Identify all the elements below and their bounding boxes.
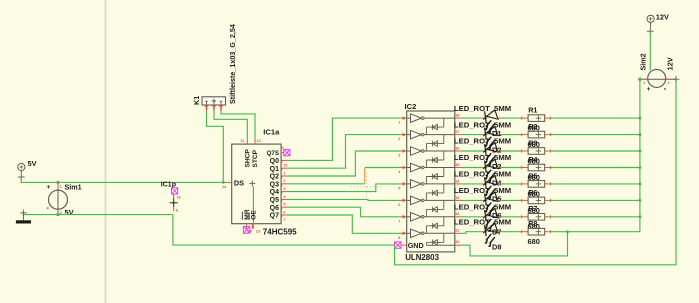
ULN output 3 stub (red) bbox=[455, 150, 461, 152]
junction node rail row 3 bbox=[638, 150, 641, 153]
wire Q2 to ULN input 3 bbox=[287, 151, 401, 176]
svg-text:R5: R5 bbox=[528, 171, 537, 180]
wire ULN output 5 to LED D5 bbox=[461, 183, 484, 185]
wire Q4 to ULN input 5 bbox=[287, 184, 401, 192]
wire Q6 to ULN input 7 bbox=[287, 207, 401, 217]
IC1a Q7S unconnected marker (magenta) bbox=[284, 150, 290, 156]
resistor R3 right stub (red) bbox=[545, 150, 551, 152]
Sim2 right pin cross bbox=[673, 78, 680, 80]
svg-text:74HC595: 74HC595 bbox=[263, 228, 297, 237]
wire R3 to +12V rail bbox=[551, 150, 640, 152]
svg-text:K1: K1 bbox=[192, 96, 201, 105]
svg-text:Q6: Q6 bbox=[270, 205, 279, 212]
wire ULN output 7 to LED D7 bbox=[461, 216, 484, 218]
svg-text:LED_ROT_5MM: LED_ROT_5MM bbox=[454, 203, 511, 212]
ULN driver 6 output line bbox=[424, 199, 455, 201]
resistor R8 body bbox=[528, 228, 545, 235]
LED D7 symbol bbox=[485, 210, 487, 221]
ULN driver 5 triangle bbox=[411, 180, 422, 189]
wire ULN output 3 to LED D3 bbox=[461, 150, 484, 152]
svg-text:Q7S: Q7S bbox=[267, 150, 279, 157]
svg-text:2: 2 bbox=[283, 179, 285, 183]
wire LED D5 to resistor R5 bbox=[501, 183, 522, 185]
K1 pin 1 stub (red) bbox=[206, 105, 208, 111]
svg-text:OE: OE bbox=[251, 210, 258, 220]
wire R2 to +12V rail bbox=[551, 134, 640, 136]
LED D3 anode stub (red) bbox=[484, 150, 488, 152]
IC1p GND pin stub (red) bbox=[173, 207, 175, 211]
resistor R6 left stub (red) bbox=[522, 199, 528, 201]
IC1a Q4 stub (red) bbox=[281, 191, 287, 193]
junction node rail row 7 bbox=[638, 215, 641, 218]
svg-text:12V: 12V bbox=[656, 12, 669, 21]
LED D4 cathode stub (red) bbox=[497, 167, 501, 169]
svg-text:16: 16 bbox=[455, 146, 459, 150]
wire Q3 to ULN input 4 bbox=[365, 167, 401, 169]
ULN input 3 stub (red) bbox=[401, 150, 407, 152]
svg-text:5: 5 bbox=[283, 203, 285, 207]
svg-text:1: 1 bbox=[398, 121, 400, 125]
ULN driver 3 triangle bbox=[411, 147, 422, 156]
wire LED D3 to resistor R3 bbox=[501, 150, 522, 152]
IC1a Q2 stub (red) bbox=[281, 175, 287, 177]
connector K1 body bbox=[202, 97, 226, 105]
ULN driver 2 triangle bbox=[411, 130, 422, 139]
IC1a Q5 stub (red) bbox=[281, 198, 287, 200]
ULN driver 1 output line bbox=[424, 117, 455, 119]
svg-text:Q1: Q1 bbox=[270, 166, 279, 173]
svg-text:7: 7 bbox=[283, 218, 285, 222]
LED D5 anode stub (red) bbox=[484, 183, 488, 185]
svg-text:GND: GND bbox=[408, 241, 424, 250]
driver array IC2 ULN2803 body bbox=[407, 111, 455, 252]
wire K1 pin2 to SHCP bbox=[214, 111, 247, 139]
cursor crosshair dotted lines bbox=[351, 186, 383, 188]
svg-text:11: 11 bbox=[240, 139, 244, 143]
svg-text:6: 6 bbox=[398, 203, 400, 207]
svg-text:R8: R8 bbox=[528, 219, 537, 228]
wire Q3 vertical segment (orange highlighted) bbox=[364, 168, 366, 184]
ULN driver 4 triangle bbox=[411, 163, 422, 172]
resistor R5 right stub (red) bbox=[545, 183, 551, 185]
svg-text:Q4: Q4 bbox=[270, 189, 279, 196]
IC1a MR unconnected marker (magenta) bbox=[243, 227, 250, 234]
wire R1 to +12V rail bbox=[551, 117, 640, 119]
ULN driver 6 triangle bbox=[411, 196, 422, 205]
wire CD+ to 12V net bbox=[461, 232, 568, 256]
ULN input 6 stub (red) bbox=[401, 199, 407, 201]
wire Q0 to ULN input 1 bbox=[287, 118, 401, 160]
junction node rail row 4 bbox=[638, 166, 641, 169]
voltage source Sim2 bbox=[648, 69, 666, 87]
svg-text:+: + bbox=[647, 86, 651, 93]
frame grid line bbox=[105, 0, 107, 303]
ULN input 8 stub (red) bbox=[401, 232, 407, 234]
svg-text:12: 12 bbox=[455, 212, 459, 216]
LED D4 symbol bbox=[485, 161, 487, 172]
IC1a Q7 stub (red) bbox=[281, 214, 287, 216]
wire K1 pin3 to STCP bbox=[221, 111, 255, 139]
svg-text:13: 13 bbox=[256, 230, 260, 234]
ULN driver 3 output line bbox=[424, 150, 455, 152]
resistor R5 left stub (red) bbox=[522, 183, 528, 185]
svg-text:16: 16 bbox=[177, 196, 181, 200]
svg-text:ULN2803: ULN2803 bbox=[405, 253, 439, 262]
IC1a origin cross bbox=[249, 182, 255, 184]
svg-text:Q3: Q3 bbox=[270, 181, 279, 188]
wire ULN output 1 to LED D1 bbox=[461, 117, 484, 119]
LED D6 symbol bbox=[485, 194, 487, 205]
LED D7 anode stub (red) bbox=[484, 216, 488, 218]
ULN driver 4 output line bbox=[424, 167, 455, 169]
resistor R1 left stub (red) bbox=[522, 117, 528, 119]
ULN output 7 stub (red) bbox=[455, 216, 461, 218]
svg-text:LED_ROT_5MM: LED_ROT_5MM bbox=[454, 170, 511, 179]
resistor R7 body bbox=[528, 214, 545, 221]
resistor R8 left stub (red) bbox=[522, 231, 528, 233]
LED D7 cathode stub (red) bbox=[497, 216, 501, 218]
ULN flyback diode 8 bbox=[443, 233, 445, 242]
IC1a Q3 stub (red) bbox=[281, 183, 287, 185]
junction node Sim1 plus bbox=[56, 181, 59, 184]
resistor R4 body bbox=[528, 164, 545, 171]
wire R7 to +12V rail bbox=[551, 216, 640, 218]
ULN driver 8 triangle bbox=[411, 229, 422, 238]
LED D1 emission arrows bbox=[486, 120, 491, 127]
svg-text:18: 18 bbox=[455, 114, 459, 118]
LED D3 symbol bbox=[485, 144, 487, 155]
svg-text:LED_ROT_5MM: LED_ROT_5MM bbox=[454, 153, 511, 162]
wire +12V vertical rail bbox=[639, 79, 641, 232]
svg-text:Q7: Q7 bbox=[270, 213, 279, 220]
IC1a Q7S stub (red) bbox=[281, 152, 284, 154]
ULN input 5 stub (red) bbox=[401, 183, 407, 185]
voltage source Sim1 bbox=[49, 190, 68, 209]
svg-text:LED_ROT_5MM: LED_ROT_5MM bbox=[454, 104, 511, 113]
wire IC1p GND to ULN2803 GND bbox=[173, 215, 395, 246]
ULN output 8 stub (red) bbox=[455, 232, 461, 234]
LED D3 cathode stub (red) bbox=[497, 150, 501, 152]
junction node rail row 5 bbox=[638, 182, 641, 185]
wire 12V supply to Sim2 bbox=[649, 31, 651, 70]
IC1p pin stem bbox=[173, 194, 175, 199]
ULN flyback diode 6 bbox=[443, 200, 445, 209]
K1 origin cross bbox=[212, 100, 216, 102]
svg-text:3: 3 bbox=[283, 187, 285, 191]
svg-text:15: 15 bbox=[455, 163, 459, 167]
svg-text:8: 8 bbox=[398, 236, 400, 240]
ULN flyback diode 2 bbox=[443, 135, 445, 144]
resistor R6 right stub (red) bbox=[545, 199, 551, 201]
svg-text:17: 17 bbox=[455, 130, 459, 134]
resistor R4 left stub (red) bbox=[522, 167, 528, 169]
junction node rail row 2 bbox=[638, 133, 641, 136]
LED D1 cathode stub (red) bbox=[497, 117, 501, 119]
LED D6 emission arrows bbox=[486, 203, 491, 210]
resistor R7 right stub (red) bbox=[545, 216, 551, 218]
svg-text:D8: D8 bbox=[492, 243, 501, 252]
ULN output 4 stub (red) bbox=[455, 167, 461, 169]
wire LED D1 to resistor R1 bbox=[501, 117, 522, 119]
svg-text:5: 5 bbox=[398, 187, 400, 191]
svg-text:7: 7 bbox=[398, 219, 400, 223]
ULN GND connection marker (magenta) bbox=[395, 242, 401, 248]
svg-text:Sim1: Sim1 bbox=[65, 183, 82, 192]
wire Q1 to ULN input 2 bbox=[287, 135, 401, 169]
wire LED D4 to resistor R4 bbox=[501, 167, 522, 169]
Sim1 pin + (red) bbox=[57, 183, 59, 189]
svg-text:8: 8 bbox=[176, 209, 178, 213]
shift register IC1a body bbox=[232, 144, 281, 224]
IC1a Q1 stub (red) bbox=[281, 167, 287, 169]
junction node Sim2 plus rail bbox=[638, 78, 641, 81]
LED D8 emission arrows bbox=[486, 234, 491, 241]
wire GND bottom rail bbox=[23, 214, 173, 216]
ULN input 2 stub (red) bbox=[401, 134, 407, 136]
resistor R1 body bbox=[528, 115, 545, 122]
ULN output 6 stub (red) bbox=[455, 199, 461, 201]
wire LED D2 to resistor R2 bbox=[501, 134, 522, 136]
wire net 5V top rail bbox=[21, 177, 228, 182]
svg-text:LED_ROT_5MM: LED_ROT_5MM bbox=[454, 186, 511, 195]
IC1a SHCP pin stub (red) bbox=[246, 139, 248, 144]
svg-text:1: 1 bbox=[643, 81, 645, 85]
resistor R2 right stub (red) bbox=[545, 134, 551, 136]
wire Q7 to ULN input 8 bbox=[287, 215, 401, 233]
Sim1 pin - (red) bbox=[57, 211, 59, 215]
LED D5 cathode stub (red) bbox=[497, 183, 501, 185]
svg-text:IC1a: IC1a bbox=[263, 128, 280, 137]
resistor R3 left stub (red) bbox=[522, 150, 528, 152]
svg-text:DS: DS bbox=[234, 179, 244, 188]
svg-text:3: 3 bbox=[398, 154, 400, 158]
wire R5 to +12V rail bbox=[551, 183, 640, 185]
junction node K1-DS tap bbox=[222, 181, 225, 184]
LED D2 emission arrows bbox=[486, 137, 491, 144]
svg-text:R7: R7 bbox=[528, 204, 537, 213]
ULN input 4 stub (red) bbox=[401, 167, 407, 169]
supply +5V symbol bbox=[18, 163, 25, 170]
ULN output 2 stub (red) bbox=[455, 134, 461, 136]
LED D7 emission arrows bbox=[486, 219, 491, 226]
ULN GND stub (red) bbox=[401, 244, 407, 246]
LED D8 cathode stub (red) bbox=[497, 231, 501, 233]
ULN driver 5 output line bbox=[424, 183, 455, 185]
svg-text:10: 10 bbox=[455, 240, 459, 244]
svg-text:Q2: Q2 bbox=[270, 174, 279, 181]
LED D3 emission arrows bbox=[486, 153, 491, 160]
ULN CD+ pin stub (red) bbox=[455, 244, 461, 246]
resistor R2 body bbox=[528, 131, 545, 138]
IC1a MR pin stub (red) bbox=[246, 224, 248, 229]
IC1a Q6 stub (red) bbox=[281, 206, 287, 208]
svg-text:LED_ROT_5MM: LED_ROT_5MM bbox=[454, 217, 511, 226]
wire ULN output 4 to LED D4 bbox=[461, 167, 484, 169]
svg-text:Q0: Q0 bbox=[270, 158, 279, 165]
svg-text:STCP: STCP bbox=[252, 149, 259, 167]
wire Q5 to ULN input 6 bbox=[287, 199, 401, 200]
wire LED D7 to resistor R7 bbox=[501, 216, 522, 218]
ULN driver 2 output line bbox=[424, 134, 455, 136]
svg-text:R2: R2 bbox=[528, 122, 537, 131]
svg-text:+: + bbox=[46, 184, 50, 191]
svg-text:LED_ROT_5MM: LED_ROT_5MM bbox=[454, 137, 511, 146]
ULN output 5 stub (red) bbox=[455, 183, 461, 185]
K1 pin 3 stub (red) bbox=[220, 105, 222, 111]
svg-text:5V: 5V bbox=[28, 159, 37, 168]
LED D6 anode stub (red) bbox=[484, 199, 488, 201]
resistor R8 right stub (red) bbox=[545, 231, 551, 233]
resistor R2 left stub (red) bbox=[522, 134, 528, 136]
K1 pin 2 glyph bbox=[213, 101, 215, 105]
wire R8 to +12V rail bbox=[551, 231, 640, 233]
resistor R4 right stub (red) bbox=[545, 167, 551, 169]
LED D2 symbol bbox=[485, 128, 487, 139]
junction node Sim1 minus bbox=[56, 213, 59, 216]
svg-text:2: 2 bbox=[398, 137, 400, 141]
svg-text:12: 12 bbox=[257, 139, 261, 143]
resistor R7 left stub (red) bbox=[522, 216, 528, 218]
IC1p origin cross bbox=[170, 202, 178, 204]
LED D1 symbol bbox=[485, 111, 487, 122]
IC1a STCP pin stub (red) bbox=[254, 139, 256, 144]
ULN flyback diode 5 bbox=[443, 184, 445, 193]
LED D2 anode stub (red) bbox=[484, 134, 488, 136]
wire ULN output 2 to LED D2 bbox=[461, 134, 484, 136]
ULN input 1 stub (red) bbox=[401, 117, 407, 119]
ULN driver 1 triangle bbox=[411, 114, 422, 123]
ground symbol bbox=[20, 212, 27, 214]
LED D1 anode stub (red) bbox=[484, 117, 488, 119]
svg-text:LED_ROT_5MM: LED_ROT_5MM bbox=[454, 120, 511, 129]
wire R6 to +12V rail bbox=[551, 199, 640, 201]
svg-text:680: 680 bbox=[528, 237, 540, 246]
svg-text:Stiftleiste_1x03_G_2,54: Stiftleiste_1x03_G_2,54 bbox=[228, 24, 237, 104]
wire Q3 horizontal segment bbox=[287, 183, 365, 185]
svg-text:R4: R4 bbox=[528, 155, 537, 164]
IC1a Q0 stub (red) bbox=[281, 159, 287, 161]
LED D4 anode stub (red) bbox=[484, 167, 488, 169]
supply +12V symbol bbox=[647, 15, 654, 22]
svg-text:1: 1 bbox=[60, 185, 62, 189]
LED D5 symbol bbox=[485, 177, 487, 188]
ULN input 7 stub (red) bbox=[401, 216, 407, 218]
LED D6 cathode stub (red) bbox=[497, 199, 501, 201]
resistor R5 body bbox=[528, 181, 545, 188]
wire ULN GND down to bottom return bbox=[395, 79, 676, 265]
svg-text:R1: R1 bbox=[528, 106, 537, 115]
IC1a internal OE wire (green) bbox=[252, 186, 254, 228]
ULN flyback diode 4 bbox=[443, 168, 445, 177]
svg-text:R6: R6 bbox=[528, 188, 537, 197]
wire LED D8 to resistor R8 bbox=[501, 231, 522, 233]
Sim2 pin marks (red) bbox=[644, 78, 648, 80]
junction node rail row 6 bbox=[638, 199, 641, 202]
svg-text:1: 1 bbox=[283, 171, 285, 175]
svg-text:2: 2 bbox=[668, 81, 670, 85]
K1 pin 3 glyph bbox=[220, 101, 222, 105]
ULN driver 7 triangle bbox=[411, 213, 422, 222]
junction node rail row 1 bbox=[638, 117, 641, 120]
svg-text:5V: 5V bbox=[65, 208, 74, 217]
resistor R3 body bbox=[528, 148, 545, 155]
wire ULN output 8 to LED D8 bbox=[461, 232, 484, 234]
LED D5 emission arrows bbox=[486, 186, 491, 193]
wire LED D6 to resistor R6 bbox=[501, 199, 522, 201]
ULN flyback diode 1 bbox=[443, 118, 445, 127]
K1 pin 2 stub (red) bbox=[213, 105, 215, 111]
LED D2 cathode stub (red) bbox=[497, 134, 501, 136]
svg-text:6: 6 bbox=[283, 210, 285, 214]
IC1p VCC pin marker (magenta) bbox=[172, 188, 178, 194]
svg-text:IC2: IC2 bbox=[405, 102, 417, 111]
ULN driver 8 output line bbox=[424, 232, 455, 234]
resistor R1 right stub (red) bbox=[545, 117, 551, 119]
ULN driver 7 output line bbox=[424, 216, 455, 218]
svg-text:SHCP: SHCP bbox=[244, 149, 251, 168]
K1 pin 1 glyph bbox=[206, 101, 208, 105]
LED D8 anode stub (red) bbox=[484, 231, 488, 233]
svg-text:Sim2: Sim2 bbox=[639, 53, 648, 70]
svg-text:15: 15 bbox=[283, 164, 287, 168]
ULN flyback diode 7 bbox=[443, 217, 445, 226]
wire R4 to +12V rail bbox=[551, 167, 640, 169]
junction node CD+ tap on row8 bbox=[566, 230, 569, 233]
svg-text:12V: 12V bbox=[666, 57, 675, 70]
IC1a pin DS stub (red) bbox=[228, 181, 232, 183]
ULN common diode CD+ line bbox=[426, 244, 454, 246]
svg-text:R3: R3 bbox=[528, 138, 537, 147]
ULN output 1 stub (red) bbox=[455, 117, 461, 119]
resistor R6 body bbox=[528, 197, 545, 204]
svg-text:9: 9 bbox=[282, 146, 284, 150]
LED D8 symbol bbox=[485, 225, 487, 236]
ULN flyback diode 3 bbox=[443, 151, 445, 160]
LED D4 emission arrows bbox=[486, 170, 491, 177]
IC1a OE pin stub (red) bbox=[251, 224, 253, 229]
wire ULN output 6 to LED D6 bbox=[461, 199, 484, 201]
wire K1 pin1 to DS net bbox=[207, 111, 224, 183]
svg-text:Q5: Q5 bbox=[270, 197, 279, 204]
svg-text:11: 11 bbox=[455, 229, 459, 233]
svg-text:13: 13 bbox=[455, 196, 459, 200]
